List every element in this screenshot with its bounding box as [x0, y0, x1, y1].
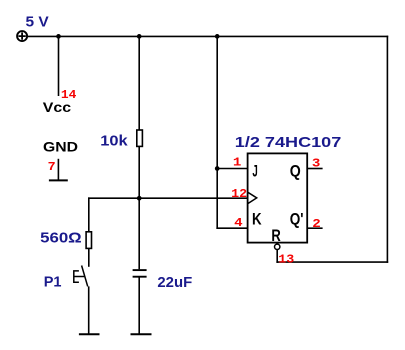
reset bubble on R pin	[275, 244, 280, 249]
wire mid horizontal clock node	[88, 197, 248, 199]
junction dot at J pin	[215, 166, 220, 171]
wire bottom of right loop to R pin	[276, 261, 388, 263]
wire R pin vertical from bubble	[276, 250, 278, 263]
junction dot at 10k branch	[137, 34, 142, 39]
wire Q' output pin 2	[307, 227, 322, 229]
svg-text:Vcc: Vcc	[43, 99, 72, 115]
junction dot at Vcc branch	[56, 34, 61, 39]
wire right side down	[386, 36, 388, 263]
wire from 560 resistor to button P1	[88, 248, 90, 266]
wire from capacitor to ground	[138, 278, 140, 334]
pushbutton P1	[74, 266, 88, 287]
svg-text:J: J	[252, 162, 257, 180]
svg-text:5 V: 5 V	[26, 13, 49, 30]
svg-text:3: 3	[312, 156, 321, 170]
svg-text:1: 1	[233, 156, 242, 170]
svg-text:P1: P1	[44, 274, 62, 291]
svg-text:Q: Q	[290, 162, 301, 180]
wire from button P1 to ground	[88, 286, 90, 334]
svg-text:K: K	[252, 211, 262, 229]
wire J-K vertical connector	[216, 36, 218, 229]
svg-text:4: 4	[234, 216, 243, 230]
wire from top rail to 10k resistor	[138, 36, 140, 130]
svg-text:7: 7	[48, 160, 56, 174]
svg-text:22uF: 22uF	[157, 274, 192, 291]
clock input triangle	[248, 192, 257, 203]
wire from clock node down to 560 resistor	[88, 197, 90, 231]
ground symbol below P1	[79, 333, 100, 335]
svg-text:Q': Q'	[290, 211, 304, 229]
junction dot at J-K branch	[215, 34, 220, 39]
svg-text:R: R	[271, 227, 281, 245]
flip-flop U1 1/2 74HC107 box	[248, 153, 308, 242]
svg-text:1/2 74HC107: 1/2 74HC107	[235, 134, 342, 151]
svg-text:GND: GND	[43, 139, 78, 155]
svg-text:12: 12	[231, 187, 247, 201]
wire Vcc stub	[58, 36, 60, 96]
wire J pin	[217, 168, 247, 170]
resistor 10k body	[137, 130, 143, 146]
resistor 560 ohm body	[86, 232, 91, 249]
wire from 10k resistor to clock node	[138, 147, 140, 199]
wire Q output pin 3	[307, 168, 322, 170]
ground symbol below capacitor	[131, 333, 152, 335]
ground symbol GND pin	[49, 159, 68, 181]
svg-text:560Ω: 560Ω	[40, 229, 82, 246]
capacitor 22uF plates	[133, 270, 147, 277]
wire K pin	[216, 227, 247, 229]
power source symbol 5V	[17, 31, 27, 41]
svg-text:13: 13	[278, 252, 294, 266]
svg-text:10k: 10k	[100, 133, 128, 150]
svg-text:2: 2	[312, 217, 321, 231]
wire top rail from 5V to right corner	[27, 35, 388, 37]
junction dot at clock node	[137, 196, 142, 201]
wire from clock node down to capacitor	[138, 198, 140, 269]
